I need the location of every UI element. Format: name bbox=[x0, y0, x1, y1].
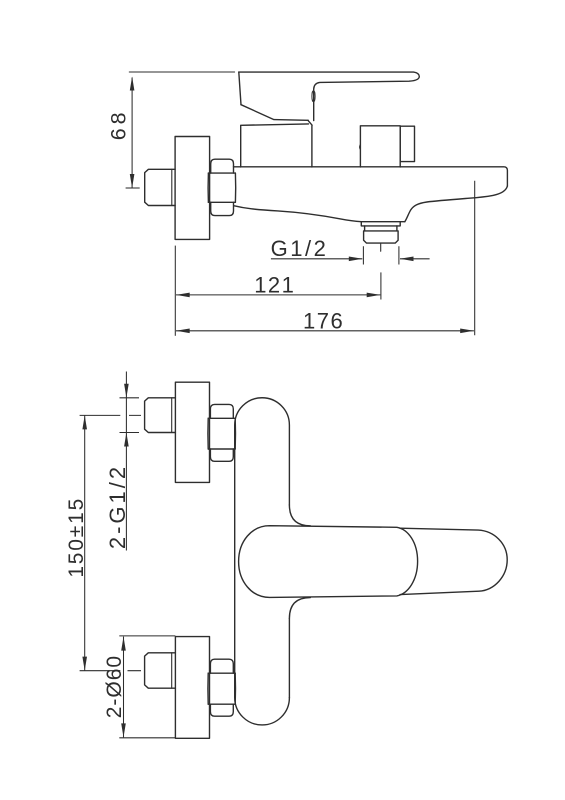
diverter left bump bbox=[359, 145, 362, 150]
arrow 121 left bbox=[176, 293, 190, 298]
diverter cap bbox=[400, 126, 414, 161]
arrow 176 right bbox=[460, 329, 474, 334]
outlet flange top bbox=[361, 221, 405, 223]
diverter knob bbox=[360, 126, 400, 167]
body top chamfer bbox=[308, 120, 312, 125]
upper escutcheon (plan) bbox=[175, 382, 209, 482]
dim Ø60 line bbox=[123, 637, 125, 738]
lower nipple face line bbox=[171, 653, 173, 688]
outlet thread bbox=[364, 231, 399, 243]
body capsule left+top dome+right upper bbox=[235, 398, 290, 698]
spout right end + underside right bbox=[405, 186, 508, 222]
dim 2-G1/2 ticks bbox=[120, 398, 140, 433]
upper hex nut (plan) bbox=[208, 404, 236, 461]
arrow 121 right bbox=[367, 293, 381, 298]
svg-text:2-Ø60: 2-Ø60 bbox=[103, 655, 126, 718]
dim Ø60 extension lines bbox=[119, 636, 175, 738]
fillet body to lever top bbox=[289, 505, 310, 526]
outlet flange bbox=[361, 222, 400, 226]
body capsule right lower bbox=[288, 618, 290, 697]
upper centerline bbox=[80, 414, 141, 416]
arrow G1/2 right bbox=[400, 257, 414, 262]
dim 68 bottom tick bbox=[126, 187, 140, 189]
svg-text:150±15: 150±15 bbox=[65, 497, 88, 578]
arrow 68 up bbox=[130, 77, 135, 91]
arrow 150 down bbox=[82, 657, 87, 671]
arrow 68 down bbox=[130, 174, 135, 188]
valve body bbox=[241, 124, 312, 167]
lever body capsule bbox=[239, 526, 418, 598]
wall escutcheon (side view) bbox=[175, 137, 210, 240]
svg-text:2-G1/2: 2-G1/2 bbox=[105, 464, 130, 549]
svg-text:176: 176 bbox=[303, 308, 344, 333]
lever grip end bbox=[400, 528, 507, 594]
dim 2-G1/2 line bbox=[125, 372, 127, 551]
svg-text:68: 68 bbox=[107, 108, 131, 140]
dim 68 line bbox=[131, 78, 133, 189]
body capsule bottom dome bbox=[235, 698, 290, 725]
arrow 2-G1/2 up bbox=[124, 433, 129, 447]
svg-text:121: 121 bbox=[254, 272, 295, 297]
spout top line bbox=[234, 167, 508, 186]
upper nipple (plan) bbox=[145, 398, 176, 433]
nipple face line bbox=[171, 169, 173, 205]
outlet groove bbox=[365, 226, 397, 231]
arrow Ø60 up bbox=[121, 637, 126, 651]
upper nipple face line bbox=[171, 398, 173, 433]
lower centerline bbox=[80, 670, 141, 672]
lower escutcheon (plan) bbox=[175, 637, 209, 739]
arrow G1/2 left bbox=[349, 257, 363, 262]
dim 121 extension right bbox=[380, 272, 382, 299]
handle base wedge bbox=[241, 105, 308, 121]
outlet center tick bbox=[380, 244, 382, 251]
dim 150 line bbox=[84, 415, 86, 670]
dim 176 extension right bbox=[474, 181, 476, 335]
dim 121 extension left bbox=[174, 246, 176, 336]
handle left edge bbox=[239, 72, 241, 105]
neck seam oval bbox=[312, 91, 315, 102]
lower nipple (plan) bbox=[145, 653, 176, 688]
lever handle bbox=[239, 72, 419, 121]
arrow 176 left bbox=[176, 329, 190, 334]
fillet body to lever bottom bbox=[289, 598, 310, 619]
arrow Ø60 down bbox=[121, 723, 126, 737]
extension line top of handle bbox=[129, 71, 234, 73]
lower hex nut (plan) bbox=[208, 659, 236, 716]
threaded nipple (side view) bbox=[145, 169, 175, 205]
dim 176 line bbox=[176, 330, 474, 332]
svg-text:G1/2: G1/2 bbox=[271, 236, 329, 261]
dim 121 line bbox=[176, 294, 380, 296]
G1/2 extension lines bbox=[363, 246, 399, 264]
G1/2 leader left bbox=[271, 258, 362, 260]
arrow 150 up bbox=[82, 415, 87, 429]
hex nut (side view) bbox=[208, 159, 236, 215]
spout underside left bbox=[234, 206, 361, 222]
G1/2 leader right bbox=[400, 258, 430, 260]
arrow 2-G1/2 down bbox=[124, 384, 129, 398]
